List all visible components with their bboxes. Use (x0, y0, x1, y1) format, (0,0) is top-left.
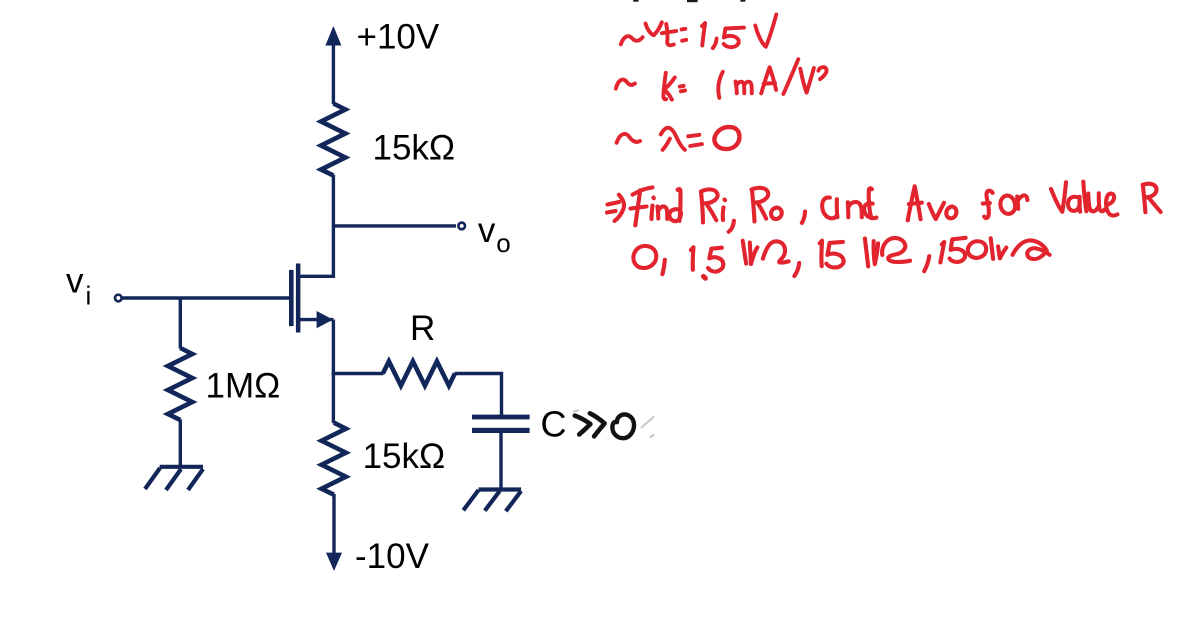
wire: node to RS (332, 374, 335, 424)
-10V supply arrow (326, 553, 342, 571)
resistor RG 1M (168, 348, 192, 420)
capacitor C top plate (472, 415, 530, 420)
svg-text:C: C (541, 404, 567, 445)
ground (input) (145, 467, 203, 490)
wire: node to R (332, 372, 384, 375)
wire: vo output (333, 224, 456, 227)
svg-text:R: R (410, 309, 435, 348)
svg-text:15kΩ: 15kΩ (363, 437, 446, 476)
wire: R to capacitor corner (455, 374, 502, 416)
svg-text:v: v (66, 262, 84, 301)
MOSFET Q1 gate bar (289, 270, 294, 326)
svg-text:v: v (478, 211, 496, 250)
handwritten red note line 1: ~Vt = 1,5 V (621, 15, 777, 49)
label vi (66, 262, 91, 311)
svg-text:-10V: -10V (355, 537, 430, 576)
handwritten zero after much-greater-than (612, 414, 634, 438)
ground (capacitor) (463, 490, 521, 512)
svg-text:i: i (86, 281, 92, 311)
handwritten red note line 3: ~ lambda = 0 (617, 127, 740, 150)
terminal vo (458, 223, 465, 230)
svg-text:o: o (496, 228, 510, 258)
wire: RS to -10V arrow (332, 494, 335, 554)
handwritten red note line 4: => Find Ri, Ro, and Avo for Value R (607, 182, 1161, 232)
handwritten red note line 2: ~ k = 1 mA/V2 (616, 59, 827, 99)
handwritten much-greater-than sign after C (575, 413, 605, 436)
wire: gate (122, 296, 289, 299)
svg-text:+10V: +10V (357, 18, 440, 57)
wire: RG to ground (179, 420, 182, 468)
resistor RS 15k (source) (322, 423, 346, 495)
terminal vi (115, 295, 122, 302)
wire: source down to node (332, 320, 335, 376)
svg-text:1MΩ: 1MΩ (206, 367, 281, 406)
capacitor C bottom plate (472, 428, 530, 433)
svg-text:15kΩ: 15kΩ (373, 129, 456, 168)
MOSFET Q1 source stub (299, 318, 333, 321)
cropped text remnants at top edge (633, 0, 745, 2)
wire: gate node to RG (179, 298, 182, 349)
label vo (478, 211, 511, 258)
handwritten red note line 5: 0, 1,5 kOhm, 15 kOhm, 150kOhm (633, 238, 1049, 278)
+10V supply arrow (325, 26, 341, 104)
MOSFET Q1 channel bar (296, 264, 301, 333)
wire: capacitor to ground (499, 433, 502, 489)
resistor R (383, 361, 455, 385)
resistor RD 15k (drain) (321, 104, 345, 176)
faint smudge marks (574, 410, 654, 437)
MOSFET Q1 drain stub (299, 275, 335, 278)
wire: RD bottom to drain (332, 175, 335, 278)
MOSFET Q1 source arrow (317, 311, 333, 328)
